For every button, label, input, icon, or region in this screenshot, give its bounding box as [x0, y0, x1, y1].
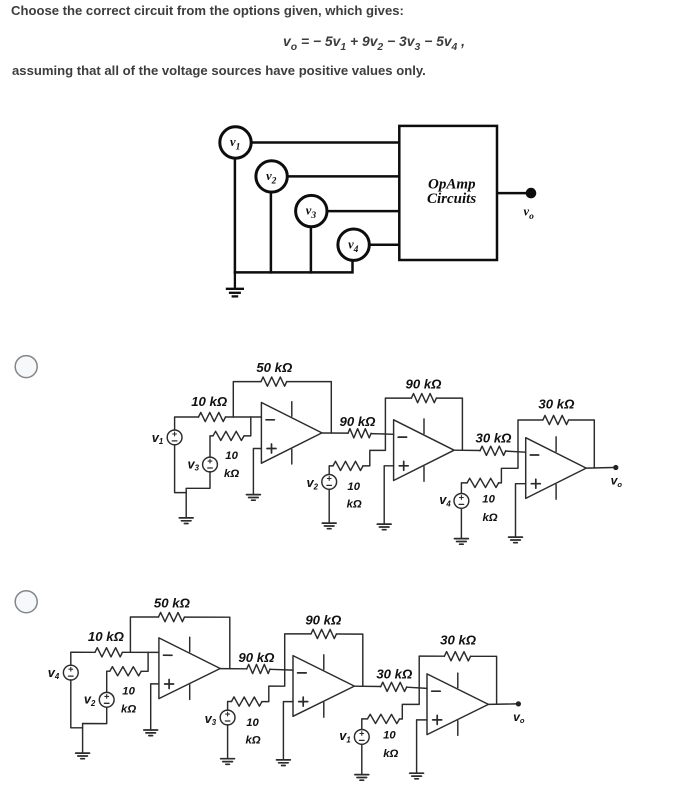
wire v1 to resistor: [362, 719, 368, 730]
wire source v2 to box: [287, 175, 399, 178]
svg-text:v1: v1: [152, 430, 163, 446]
resistor 90 kOhm interstage: [348, 429, 371, 438]
svg-text:90 kΩ: 90 kΩ: [406, 376, 443, 391]
ground noninverting stage2: [277, 760, 291, 766]
svg-text:10: 10: [122, 686, 135, 698]
wire stage1 output: [220, 668, 247, 670]
OPTION 2 CIRCUIT: [48, 595, 525, 780]
resistor 30 kOhm interstage: [480, 446, 506, 455]
svg-text:v1: v1: [339, 728, 350, 744]
voltage source v3: [220, 710, 235, 725]
svg-text:kΩ: kΩ: [347, 499, 362, 511]
ground noninverting stage1: [247, 495, 261, 501]
wire resistor to inverting input: [226, 416, 262, 418]
ground noninverting stage3: [410, 773, 424, 779]
resistor 10 kOhm from v3: [232, 697, 262, 706]
svg-text:50 kΩ: 50 kΩ: [256, 360, 293, 375]
voltage source v4: [63, 665, 78, 680]
svg-text:30 kΩ: 30 kΩ: [440, 633, 477, 648]
wire v3 top: [210, 436, 213, 457]
equation: [283, 33, 465, 53]
wire source v3 to box: [327, 210, 399, 213]
svg-text:v4: v4: [48, 665, 60, 681]
wire noninverting input stage2 to ground: [283, 702, 293, 760]
svg-text:vo: vo: [524, 205, 535, 223]
wire stage2 output: [354, 685, 380, 687]
resistor 90 kOhm feedback stage2: [411, 394, 436, 403]
wire feedback right stage2: [436, 398, 462, 450]
wire source v4 to box: [369, 243, 399, 246]
resistor 10 kOhm stage1 input: [199, 412, 226, 421]
op-amp A3: [427, 673, 488, 735]
wire feedback left stage3: [419, 656, 444, 688]
wire v2 top: [107, 671, 110, 692]
svg-text:OpAmp: OpAmp: [428, 177, 476, 193]
source v1 (block diagram): [220, 127, 251, 158]
wire noninverting input stage1 to ground: [253, 449, 261, 495]
wire to stage2 inverting input: [371, 433, 394, 436]
wire stage2 output: [454, 449, 480, 451]
svg-text:10: 10: [347, 481, 360, 493]
wire noninverting input stage1 to ground: [151, 684, 159, 730]
svg-text:v3: v3: [205, 711, 217, 727]
op-amp A2: [394, 419, 455, 481]
output node dot: [613, 465, 618, 470]
voltage source v3: [203, 457, 218, 472]
ground v4: [455, 539, 469, 545]
wire v1 resistor to inverting node stage3: [400, 688, 420, 719]
wire source v1 to box: [251, 141, 399, 144]
resistor 10 kOhm stage1 input: [95, 648, 122, 657]
ground v1: [355, 775, 369, 781]
svg-text:kΩ: kΩ: [482, 512, 497, 524]
svg-text:vo: vo: [513, 710, 525, 725]
ground (block diagram): [226, 272, 244, 296]
wire v3 bottom to ground: [186, 472, 210, 517]
wire v2 to resistor: [329, 466, 333, 475]
OPTION 1 CIRCUIT: [152, 360, 623, 544]
ground sources stage1: [76, 753, 90, 759]
svg-text:10: 10: [225, 450, 238, 462]
wire feedback right stage3: [471, 656, 497, 704]
svg-text:90 kΩ: 90 kΩ: [238, 650, 275, 665]
resistor 10 kOhm from v1: [368, 714, 400, 723]
resistor 90 kOhm interstage: [247, 664, 270, 673]
wire v1 top: [175, 417, 199, 430]
wire noninverting input stage3 to ground: [417, 720, 427, 773]
svg-text:v2: v2: [84, 692, 96, 708]
resistor 10 kOhm from v4: [467, 478, 499, 487]
ground v3: [221, 759, 235, 765]
wire stage3 output: [488, 703, 516, 706]
wire source v2 down to common rail: [270, 192, 273, 274]
wire feedback left stage1: [233, 382, 261, 417]
svg-text:30 kΩ: 30 kΩ: [376, 667, 413, 682]
voltage source v2: [322, 475, 337, 490]
wire v3 bottom to ground: [227, 725, 229, 758]
third line: [12, 63, 426, 78]
wire v1 bottom to ground: [175, 445, 187, 493]
wire v3 resistor to inverting node: [244, 417, 251, 436]
wire feedback left stage2: [285, 634, 311, 670]
wire v2 resistor to inverting node stage2: [363, 434, 385, 466]
voltage source v1: [354, 730, 369, 745]
ground sources stage1: [179, 518, 193, 524]
svg-text:Circuits: Circuits: [427, 191, 476, 207]
op-amp A3: [526, 437, 587, 499]
common ground rail: [234, 271, 353, 274]
resistor 30 kOhm feedback stage3: [543, 415, 569, 424]
svg-text:kΩ: kΩ: [245, 734, 260, 746]
ground noninverting stage1: [144, 730, 158, 736]
svg-text:50 kΩ: 50 kΩ: [154, 595, 191, 610]
op-amp A2: [293, 655, 354, 717]
resistor 90 kOhm feedback stage2: [311, 629, 336, 638]
wire feedback left stage3: [518, 420, 543, 452]
wire v3 resistor to inverting node stage2: [262, 670, 285, 702]
wire stage1 output: [322, 432, 348, 434]
wire source v3 down to common rail: [310, 227, 313, 274]
output node dot: [526, 188, 537, 199]
svg-text:10 kΩ: 10 kΩ: [88, 629, 125, 644]
wire feedback right stage3: [569, 420, 595, 468]
wire feedback right stage1: [185, 617, 230, 669]
svg-text:v2: v2: [307, 475, 319, 491]
svg-text:30 kΩ: 30 kΩ: [476, 431, 513, 446]
wire source v1 down to common rail: [234, 158, 237, 273]
wire v4 to resistor: [461, 483, 467, 494]
svg-text:v3: v3: [188, 456, 200, 472]
wire feedback left stage1: [130, 617, 158, 652]
output node dot: [516, 701, 521, 706]
svg-text:90 kΩ: 90 kΩ: [340, 414, 377, 429]
svg-text:v4: v4: [439, 492, 451, 508]
source v2 (block diagram): [256, 161, 287, 192]
voltage source v1: [167, 430, 182, 445]
wire noninverting input stage3 to ground: [516, 484, 526, 537]
resistor 50 kOhm feedback stage1: [159, 612, 185, 621]
wire v2 bottom to ground: [328, 489, 330, 522]
wire to stage3 inverting input: [506, 451, 526, 452]
wire v2 bottom to ground: [83, 707, 107, 752]
wire v3 to resistor: [228, 702, 232, 711]
wire v1 bottom to ground: [361, 744, 363, 774]
svg-text:kΩ: kΩ: [383, 748, 398, 760]
svg-text:kΩ: kΩ: [224, 468, 239, 480]
ground noninverting stage2: [377, 524, 391, 530]
wire feedback right stage1: [287, 382, 332, 433]
voltage source v4: [454, 494, 469, 509]
op-amp A1: [159, 637, 220, 699]
wire v2 resistor to inverting node: [141, 652, 148, 671]
wire to stage3 inverting input: [407, 687, 427, 688]
wire resistor to inverting input: [122, 651, 158, 653]
resistor 10 kOhm from v3: [213, 431, 244, 440]
resistor 10 kOhm from v2: [110, 667, 141, 676]
source v3 (block diagram): [296, 195, 327, 226]
svg-text:kΩ: kΩ: [121, 704, 136, 716]
ground v2: [322, 523, 336, 529]
resistor 10 kOhm from v2: [333, 461, 363, 470]
ground noninverting stage3: [509, 537, 523, 543]
box OpAmp Circuits: [399, 126, 497, 260]
wire to stage2 inverting input: [270, 668, 293, 671]
wire feedback left stage2: [385, 398, 411, 434]
wire v4 bottom to ground: [460, 508, 462, 538]
wire stage3 output: [586, 467, 613, 470]
svg-text:vo: vo: [611, 474, 623, 489]
resistor 30 kOhm interstage: [381, 682, 407, 691]
svg-text:10 kΩ: 10 kΩ: [191, 394, 228, 409]
wire v4 resistor to inverting node stage3: [499, 452, 518, 483]
svg-text:30 kΩ: 30 kΩ: [538, 396, 575, 411]
radio button option 1: [15, 356, 37, 378]
wire feedback right stage2: [336, 634, 362, 686]
radio button option 2: [15, 591, 37, 613]
wire source v4 down to common rail: [351, 260, 354, 273]
source v4 (block diagram): [338, 229, 369, 260]
svg-text:10: 10: [482, 494, 495, 506]
output wire: [497, 192, 527, 195]
voltage source v2: [99, 692, 114, 707]
op-amp A1: [261, 402, 322, 464]
resistor 50 kOhm feedback stage1: [261, 377, 287, 386]
svg-text:90 kΩ: 90 kΩ: [305, 612, 342, 627]
title line: [11, 3, 404, 18]
wire noninverting input stage2 to ground: [384, 466, 393, 524]
svg-text:10: 10: [383, 730, 396, 742]
wire v4 bottom to ground: [71, 680, 83, 728]
resistor 30 kOhm feedback stage3: [444, 652, 470, 661]
svg-text:10: 10: [246, 717, 259, 729]
wire v4 top: [71, 652, 95, 665]
